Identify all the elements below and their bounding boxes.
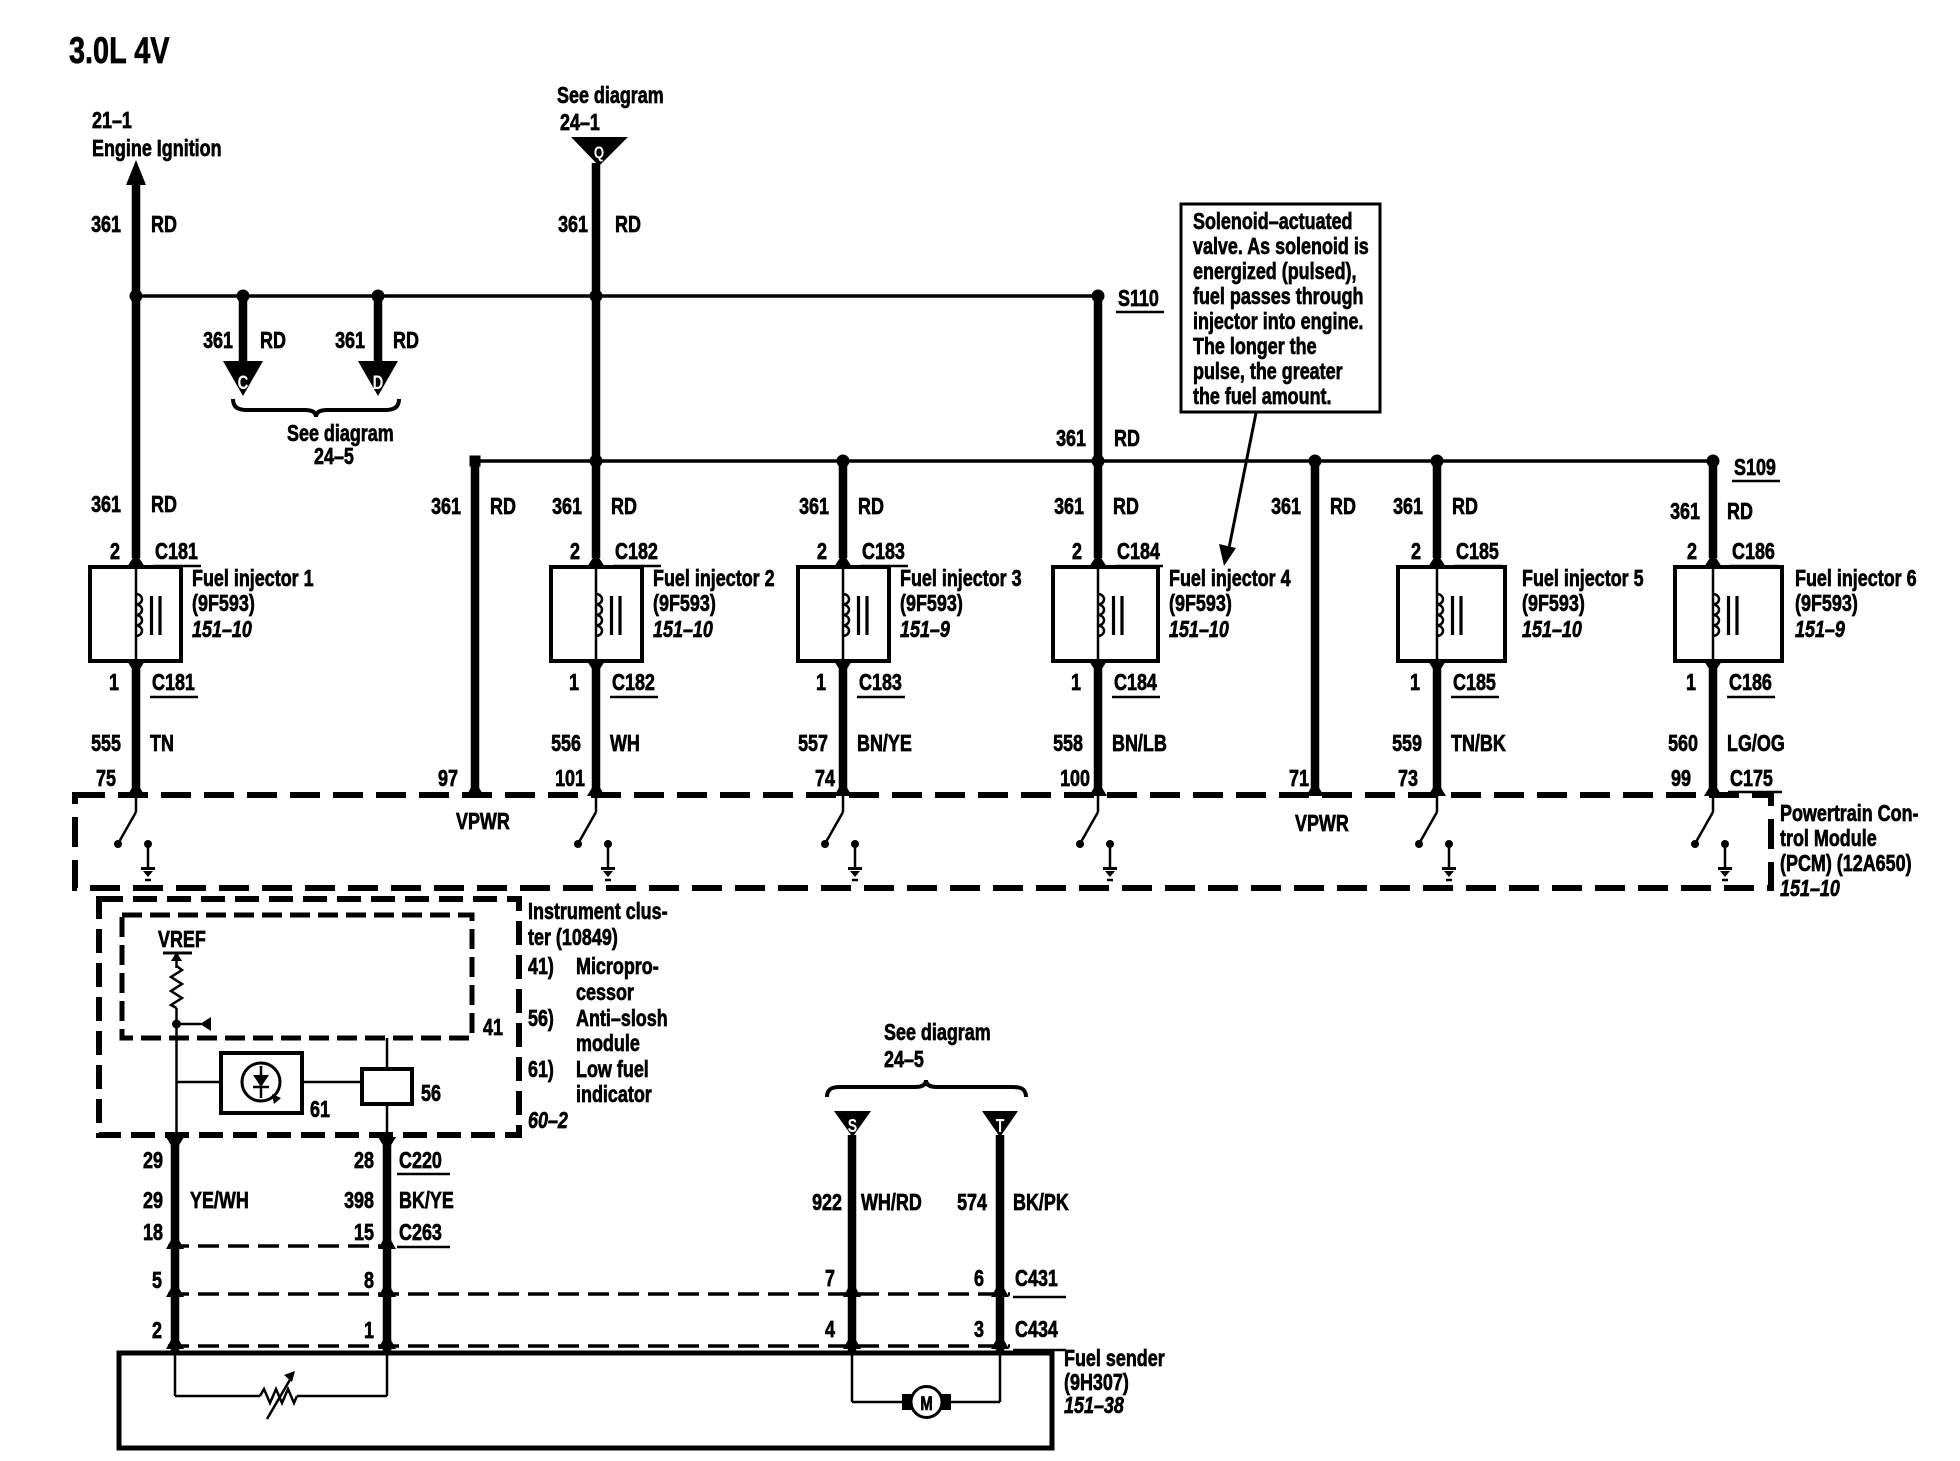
svg-text:VREF: VREF — [158, 926, 206, 952]
svg-text:1: 1 — [109, 669, 119, 695]
svg-text:560: 560 — [1668, 730, 1698, 756]
connector C181 pin 1 (label + arrow) — [109, 661, 198, 697]
label 361 RD below S109 bus — [431, 493, 516, 519]
wire 361 RD drop to triangle C — [239, 296, 248, 363]
svg-text:Engine Ignition: Engine Ignition — [92, 135, 222, 161]
svg-text:RD: RD — [490, 493, 516, 519]
label 557 BN/YE — [798, 730, 912, 756]
svg-text:56: 56 — [421, 1080, 441, 1106]
circuit labels 922 WH/RD and 574 BK/PK — [812, 1189, 1069, 1215]
wire 361 RD VPWR drop to PCM pin 97 — [471, 461, 480, 789]
svg-text:Fuel sender: Fuel sender — [1064, 1345, 1165, 1371]
svg-text:1: 1 — [816, 669, 826, 695]
ground inside PCM — [1718, 840, 1732, 880]
ground inside PCM — [1442, 840, 1456, 880]
pin labels 2 / 1 — [152, 1317, 374, 1343]
svg-text:C263: C263 — [399, 1219, 442, 1245]
triangle connector T (to diagram 24-5) — [982, 1111, 1018, 1137]
svg-text:C186: C186 — [1729, 669, 1772, 695]
svg-text:RD: RD — [260, 327, 286, 353]
wire 922 WH/RD from S to fuel sender — [848, 1135, 857, 1353]
svg-text:61: 61 — [310, 1096, 330, 1122]
label fuel injector 6 name block — [1795, 565, 1917, 642]
PCM pin 74 label — [815, 765, 835, 791]
svg-text:C431: C431 — [1015, 1265, 1058, 1291]
svg-text:100: 100 — [1060, 765, 1090, 791]
svg-text:RD: RD — [1113, 493, 1139, 519]
svg-text:trol Module: trol Module — [1780, 825, 1877, 851]
label see diagram 24-5 (bottom) — [884, 1019, 991, 1072]
svg-text:60–2: 60–2 — [528, 1107, 568, 1133]
ground inside PCM — [141, 840, 155, 880]
wire 398 BK/YE from cluster to fuel sender — [383, 1140, 392, 1353]
label 361 RD on Q wire — [558, 211, 641, 237]
svg-text:RD: RD — [393, 327, 419, 353]
label 559 TN/BK — [1392, 730, 1506, 756]
PCM pin 100 label — [1060, 765, 1090, 791]
triangle connector C (to diagram 24-5) — [223, 361, 263, 396]
connector C434 dashed line — [166, 1333, 1010, 1349]
connector C181 pin 2 (label + arrow) — [110, 538, 201, 567]
svg-text:Low fuel: Low fuel — [576, 1056, 649, 1082]
svg-text:75: 75 — [96, 765, 116, 791]
svg-text:41): 41) — [528, 953, 554, 979]
svg-text:(9F593): (9F593) — [1522, 590, 1585, 616]
svg-text:WH/RD: WH/RD — [861, 1189, 922, 1215]
label 560 LG/OG — [1668, 730, 1785, 756]
wire microprocessor to 56 box — [386, 1038, 389, 1069]
svg-text:559: 559 — [1392, 730, 1422, 756]
svg-text:T: T — [996, 1116, 1005, 1136]
svg-text:cessor: cessor — [576, 979, 634, 1005]
svg-text:3: 3 — [974, 1316, 984, 1342]
svg-text:BN/YE: BN/YE — [857, 730, 912, 756]
svg-text:C181: C181 — [152, 669, 195, 695]
svg-text:151–38: 151–38 — [1064, 1392, 1124, 1418]
wire 555 TN from injector to PCM — [132, 666, 141, 789]
svg-text:S109: S109 — [1734, 454, 1776, 480]
wire 557 BN/YE from injector to PCM — [839, 666, 848, 789]
svg-text:361: 361 — [91, 211, 121, 237]
svg-text:361: 361 — [1056, 425, 1086, 451]
svg-text:24–5: 24–5 — [314, 443, 354, 469]
label 558 BN/LB — [1053, 730, 1167, 756]
svg-text:556: 556 — [551, 730, 581, 756]
fuel sender box — [119, 1353, 1052, 1448]
junction node with wiper arrow — [172, 1017, 211, 1031]
net VPWR label (left) — [456, 808, 510, 834]
wire inside sender from pin 4 to motor — [852, 1353, 902, 1402]
svg-text:361: 361 — [203, 327, 233, 353]
svg-text:RD: RD — [151, 491, 177, 517]
connector arrow into PCM — [1089, 781, 1107, 796]
fuel injector 5 (9F593) — [1398, 567, 1505, 661]
connector arrows leaving instrument cluster — [166, 1137, 396, 1152]
svg-text:BK/YE: BK/YE — [399, 1187, 454, 1213]
svg-text:valve. As solenoid is: valve. As solenoid is — [1193, 233, 1369, 259]
svg-text:361: 361 — [1054, 493, 1084, 519]
svg-text:29: 29 — [143, 1147, 163, 1173]
ground inside PCM — [601, 840, 615, 880]
svg-text:18: 18 — [143, 1219, 163, 1245]
svg-text:VPWR: VPWR — [1295, 810, 1349, 836]
wire bus splice S109 horizontal — [475, 459, 1713, 463]
svg-text:2: 2 — [110, 538, 120, 564]
label 361 RD above injector 1 — [91, 491, 177, 517]
svg-text:Instrument clus-: Instrument clus- — [528, 898, 668, 924]
fuel injector 4 (9F593) — [1053, 567, 1158, 661]
label 361 RD above injector 6 — [1670, 498, 1753, 524]
wire from motor to pin 3 — [951, 1353, 1000, 1402]
svg-text:pulse, the greater: pulse, the greater — [1193, 358, 1343, 384]
low fuel indicator (61) box with LED — [221, 1053, 302, 1113]
svg-text:922: 922 — [812, 1189, 842, 1215]
svg-text:2: 2 — [1687, 538, 1697, 564]
wire 61 box to 56 box — [302, 1081, 362, 1084]
svg-text:WH: WH — [610, 730, 640, 756]
switch (PCM driver) — [1076, 796, 1098, 848]
svg-text:8: 8 — [364, 1267, 374, 1293]
title 3.0L 4V — [69, 30, 170, 71]
connector C263 labels 18 / 15 — [143, 1219, 450, 1247]
resistor (fuel gauge sender pull-up) — [171, 966, 182, 1008]
node 21-1 Engine Ignition (off-page reference) — [92, 107, 222, 161]
svg-text:1: 1 — [364, 1317, 374, 1343]
PCM pin 101 label — [555, 765, 585, 791]
svg-text:(9F593): (9F593) — [900, 590, 963, 616]
svg-text:(9F593): (9F593) — [653, 590, 716, 616]
wire 361 RD from S109 bus to injector 6 — [1709, 461, 1718, 558]
svg-text:YE/WH: YE/WH — [190, 1187, 249, 1213]
svg-text:See diagram: See diagram — [884, 1019, 991, 1045]
label fuel injector 2 name block — [653, 565, 775, 642]
svg-text:574: 574 — [957, 1189, 987, 1215]
svg-text:RD: RD — [611, 493, 637, 519]
svg-text:C185: C185 — [1456, 538, 1499, 564]
label 361 RD between buses — [1056, 425, 1140, 451]
switch (PCM driver) — [821, 796, 843, 848]
svg-text:module: module — [576, 1030, 640, 1056]
wire 574 BK/PK from T to fuel sender — [996, 1135, 1005, 1353]
svg-text:361: 361 — [799, 493, 829, 519]
svg-text:557: 557 — [798, 730, 828, 756]
svg-text:101: 101 — [555, 765, 585, 791]
connector C185 pin 1 (label + arrow) — [1410, 661, 1499, 697]
label 41 (microprocessor) — [483, 1014, 503, 1040]
svg-text:Q: Q — [594, 143, 604, 162]
label 61 — [310, 1096, 330, 1122]
brace over S and T — [827, 1080, 1026, 1097]
label 56 — [421, 1080, 441, 1106]
PCM pin 99 and connector C175 label — [1671, 765, 1782, 792]
note box: solenoid-actuated valve description — [1181, 204, 1380, 412]
svg-text:C175: C175 — [1730, 765, 1773, 791]
svg-text:Fuel injector 3: Fuel injector 3 — [900, 565, 1022, 591]
variable resistor (fuel level sender) — [260, 1371, 297, 1419]
wire 560 LG/OG from injector to PCM — [1709, 666, 1718, 789]
svg-text:ter (10849): ter (10849) — [528, 924, 618, 950]
connector C184 pin 2 (label + arrow) — [1072, 538, 1163, 567]
label Powertrain Control Module (PCM) (12A650) 151-10 — [1780, 800, 1919, 901]
connector C263 dashed line — [166, 1233, 396, 1249]
label see diagram 24-5 (under brace) — [287, 420, 394, 469]
svg-text:6: 6 — [974, 1265, 984, 1291]
svg-text:The longer the: The longer the — [1193, 333, 1317, 359]
connector C184 pin 1 (label + arrow) — [1071, 661, 1160, 697]
svg-text:361: 361 — [552, 493, 582, 519]
microprocessor (41) inner dashed box — [122, 915, 472, 1038]
splice S109 label — [1732, 454, 1780, 481]
wire 361 RD VPWR drop to PCM pin 71 — [1311, 461, 1320, 789]
wire 361 RD drop to triangle D — [374, 296, 383, 363]
wire branch to low fuel indicator — [177, 1081, 222, 1084]
switch (PCM driver) — [114, 796, 136, 848]
svg-text:Powertrain Con-: Powertrain Con- — [1780, 800, 1919, 826]
svg-text:61): 61) — [528, 1056, 554, 1082]
fuel injector 3 (9F593) — [798, 567, 889, 661]
svg-text:fuel passes through: fuel passes through — [1193, 283, 1364, 309]
svg-text:1: 1 — [1410, 669, 1420, 695]
svg-text:151–9: 151–9 — [1795, 616, 1845, 642]
label 361 RD (C drop) — [203, 327, 286, 353]
wire 361 RD from S109 bus to injector 4 — [1094, 461, 1103, 558]
svg-text:RD: RD — [151, 211, 177, 237]
label 361 RD upper left — [91, 211, 177, 237]
svg-text:99: 99 — [1671, 765, 1691, 791]
label 361 RD below S109 bus — [799, 493, 884, 519]
svg-text:S110: S110 — [1118, 285, 1159, 311]
svg-text:VPWR: VPWR — [456, 808, 510, 834]
wire bus splice S110 horizontal — [136, 294, 1098, 298]
label fuel injector 4 name block — [1169, 565, 1291, 642]
svg-text:361: 361 — [1271, 493, 1301, 519]
svg-text:BK/PK: BK/PK — [1013, 1189, 1069, 1215]
wire 558 BN/LB from injector to PCM — [1094, 666, 1103, 789]
ground inside PCM — [848, 840, 862, 880]
triangle connector Q (to diagram 24-1) — [571, 137, 628, 166]
PCM pin 71 label — [1289, 765, 1309, 791]
connector C183 pin 2 (label + arrow) — [817, 538, 908, 567]
PCM pin 97 label — [438, 765, 458, 791]
connector C185 pin 2 (label + arrow) — [1411, 538, 1502, 567]
svg-text:C184: C184 — [1117, 538, 1160, 564]
svg-text:RD: RD — [1727, 498, 1753, 524]
svg-text:Anti–slosh: Anti–slosh — [576, 1005, 668, 1031]
switch (PCM driver) — [1691, 796, 1713, 848]
svg-text:361: 361 — [335, 327, 365, 353]
svg-text:injector into engine.: injector into engine. — [1193, 308, 1363, 334]
svg-text:C182: C182 — [615, 538, 658, 564]
svg-text:97: 97 — [438, 765, 458, 791]
svg-text:(9F593): (9F593) — [1795, 590, 1858, 616]
svg-text:15: 15 — [354, 1219, 374, 1245]
wire 361 RD vertical from Engine Ignition through S110 bus to fuel injector 1 — [132, 180, 141, 558]
svg-text:S: S — [848, 1116, 857, 1136]
svg-text:(PCM) (12A650): (PCM) (12A650) — [1780, 850, 1912, 876]
svg-text:C181: C181 — [155, 538, 198, 564]
fuel pump motor M — [902, 1387, 951, 1418]
label Fuel sender (9H307) 151-38 — [1064, 1345, 1165, 1418]
label 361 RD below S109 bus — [1393, 493, 1478, 519]
label 361 RD below S109 bus — [1054, 493, 1139, 519]
connector C183 pin 1 (label + arrow) — [816, 661, 905, 697]
connector C431 dashed line — [166, 1281, 1010, 1297]
svg-text:energized (pulsed),: energized (pulsed), — [1193, 258, 1357, 284]
wire 361 RD from S109 bus to injector 3 — [839, 461, 848, 558]
node VREF terminal — [158, 926, 206, 968]
triangle connector D (to diagram 24-5) — [358, 361, 398, 396]
net VPWR label (right) — [1295, 810, 1349, 836]
svg-text:RD: RD — [1330, 493, 1356, 519]
splice S110 label — [1116, 285, 1164, 312]
connector C431 labels 7 / 6 — [825, 1265, 1066, 1297]
svg-text:TN: TN — [150, 730, 174, 756]
connector C182 pin 1 (label + arrow) — [569, 661, 658, 697]
svg-text:2: 2 — [1072, 538, 1082, 564]
connector arrow into PCM — [834, 781, 852, 796]
svg-text:361: 361 — [431, 493, 461, 519]
connector arrow into PCM — [1306, 781, 1324, 796]
brace under C and D — [233, 399, 399, 417]
svg-text:361: 361 — [558, 211, 588, 237]
svg-text:C183: C183 — [862, 538, 905, 564]
wire 556 WH from injector to PCM — [592, 666, 601, 789]
svg-text:151–10: 151–10 — [653, 616, 713, 642]
svg-text:73: 73 — [1398, 765, 1418, 791]
wire from resistor to pin 1 — [297, 1353, 387, 1396]
connector C182 pin 2 (label + arrow) — [570, 538, 661, 567]
wire inside sender from pin 2 — [175, 1353, 260, 1396]
wire VREF node down to cluster bottom — [175, 1008, 178, 1137]
svg-text:555: 555 — [91, 730, 121, 756]
wire 56 box down to cluster bottom — [386, 1104, 389, 1137]
instrument cluster dashed box — [99, 899, 519, 1135]
wire 361 RD from S110 bus down to S109 bus — [1094, 296, 1103, 461]
svg-text:151–10: 151–10 — [1522, 616, 1582, 642]
svg-text:Fuel injector 5: Fuel injector 5 — [1522, 565, 1644, 591]
wire 361 RD from S109 bus to injector 5 — [1433, 461, 1442, 558]
connector arrow into PCM — [1704, 781, 1722, 796]
svg-text:3.0L 4V: 3.0L 4V — [69, 30, 170, 71]
svg-text:1: 1 — [569, 669, 579, 695]
svg-text:2: 2 — [152, 1317, 162, 1343]
svg-text:Fuel injector 6: Fuel injector 6 — [1795, 565, 1917, 591]
triangle connector S (to diagram 24-5) — [834, 1111, 871, 1137]
connector arrow into PCM — [1428, 781, 1446, 796]
svg-text:TN/BK: TN/BK — [1451, 730, 1506, 756]
svg-text:C186: C186 — [1732, 538, 1775, 564]
svg-text:1: 1 — [1071, 669, 1081, 695]
svg-text:Fuel injector 2: Fuel injector 2 — [653, 565, 775, 591]
anti-slosh module (56) box — [362, 1069, 412, 1104]
svg-text:151–10: 151–10 — [192, 616, 252, 642]
svg-text:24–1: 24–1 — [560, 109, 600, 135]
junction dots on S110 bus — [130, 290, 1105, 303]
svg-text:indicator: indicator — [576, 1081, 652, 1107]
svg-text:RD: RD — [1452, 493, 1478, 519]
fuel injector 6 (9F593) — [1675, 567, 1782, 661]
Powertrain Control Module (PCM) dashed box — [75, 795, 1771, 888]
label 361 RD below S109 bus — [1271, 493, 1356, 519]
label fuel injector 5 name block — [1522, 565, 1644, 642]
svg-text:71: 71 — [1289, 765, 1309, 791]
svg-text:LG/OG: LG/OG — [1727, 730, 1785, 756]
connector C186 pin 2 (label + arrow) — [1687, 538, 1778, 567]
svg-text:Fuel injector 1: Fuel injector 1 — [192, 565, 314, 591]
svg-text:361: 361 — [1670, 498, 1700, 524]
connector arrow into PCM — [466, 781, 484, 796]
svg-text:C: C — [238, 373, 249, 394]
connector C434 labels 4 / 3 — [825, 1316, 1066, 1350]
svg-text:1: 1 — [1686, 669, 1696, 695]
junction dots on S109 bus — [470, 455, 1720, 468]
svg-text:21–1: 21–1 — [92, 107, 132, 133]
label fuel injector 3 name block — [900, 565, 1022, 642]
label 361 RD below S109 bus — [552, 493, 637, 519]
ground inside PCM — [1103, 840, 1117, 880]
svg-text:the fuel amount.: the fuel amount. — [1193, 383, 1332, 409]
svg-text:28: 28 — [354, 1147, 374, 1173]
circuit labels 29 YE/WH and 398 BK/YE — [143, 1187, 454, 1213]
svg-text:(9F593): (9F593) — [192, 590, 255, 616]
svg-text:7: 7 — [825, 1265, 835, 1291]
label 556 WH — [551, 730, 640, 756]
svg-text:361: 361 — [1393, 493, 1423, 519]
arrow from note box to fuel injector 4 — [1219, 413, 1256, 566]
svg-text:24–5: 24–5 — [884, 1046, 924, 1072]
wire 361 RD from triangle Q to bus S110 and down to injector 2 — [592, 163, 601, 558]
svg-text:361: 361 — [91, 491, 121, 517]
fuel injector 1 (9F593) — [90, 567, 181, 661]
PCM pin 75 label — [96, 765, 116, 791]
svg-text:RD: RD — [858, 493, 884, 519]
fuel injector 2 (9F593) — [551, 567, 642, 661]
svg-text:41: 41 — [483, 1014, 503, 1040]
svg-text:D: D — [373, 373, 384, 394]
svg-text:4: 4 — [825, 1316, 835, 1342]
switch (PCM driver) — [1415, 796, 1437, 848]
svg-text:RD: RD — [615, 211, 641, 237]
label 361 RD (D drop) — [335, 327, 419, 353]
svg-text:C184: C184 — [1114, 669, 1157, 695]
PCM pin 73 label — [1398, 765, 1418, 791]
svg-text:398: 398 — [344, 1187, 374, 1213]
pin labels 5 / 8 — [152, 1267, 374, 1293]
node see diagram 24-1 reference — [557, 82, 664, 135]
svg-text:151–10: 151–10 — [1780, 875, 1840, 901]
svg-text:C434: C434 — [1015, 1316, 1058, 1342]
instrument cluster text block — [528, 898, 668, 1133]
connector arrow into PCM — [127, 781, 145, 796]
wire 559 TN/BK from injector to PCM — [1433, 666, 1442, 789]
svg-text:C182: C182 — [612, 669, 655, 695]
svg-text:RD: RD — [1114, 425, 1140, 451]
svg-text:(9F593): (9F593) — [1169, 590, 1232, 616]
svg-text:29: 29 — [143, 1187, 163, 1213]
svg-text:2: 2 — [817, 538, 827, 564]
arrowhead to Engine Ignition — [126, 160, 146, 185]
svg-text:56): 56) — [528, 1005, 554, 1031]
svg-text:151–9: 151–9 — [900, 616, 950, 642]
svg-text:C183: C183 — [859, 669, 902, 695]
label 555 TN — [91, 730, 174, 756]
svg-text:2: 2 — [570, 538, 580, 564]
svg-text:Fuel injector 4: Fuel injector 4 — [1169, 565, 1291, 591]
svg-text:See diagram: See diagram — [557, 82, 664, 108]
cluster pin 29 / 28 C220 labels — [143, 1147, 450, 1174]
svg-text:Solenoid–actuated: Solenoid–actuated — [1193, 208, 1353, 234]
connector arrow into PCM — [587, 781, 605, 796]
